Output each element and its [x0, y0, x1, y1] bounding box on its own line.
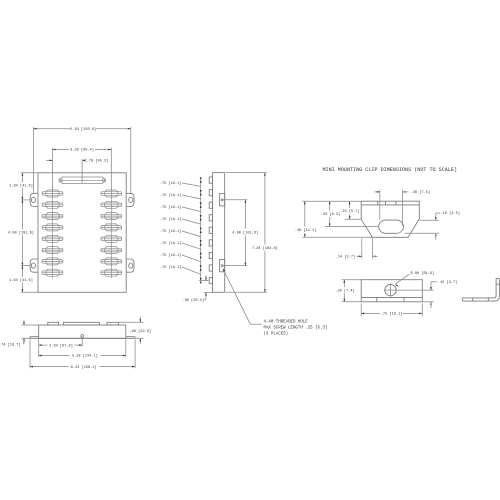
front view: connector slot row 2 right: [101, 199, 122, 210]
bottom view: tab left: [48, 322, 59, 325]
front view: connector slot row 4 left: [42, 222, 63, 233]
svg-text:1.64 [41.6]: 1.64 [41.6]: [9, 278, 33, 283]
bottom view: tab middle wide: [63, 322, 99, 325]
svg-text:.75 [19.1]: .75 [19.1]: [381, 312, 403, 317]
dimension .33 [8.3]: [321, 201, 379, 226]
clip front view: bend line with ticks: [361, 297, 422, 301]
clip top view: bend line with ticks: [361, 201, 419, 205]
front view: connector slot row 8 left: [42, 267, 63, 278]
dimension 7.28 [184.8] side view overall height: [226, 173, 278, 293]
svg-text:2.64 [67.0]: 2.64 [67.0]: [49, 343, 73, 348]
dimension .23 [5.7]: [340, 201, 361, 219]
clip front view: hole circle with centerlines: [384, 283, 397, 297]
svg-text:5.93 [150.6]: 5.93 [150.6]: [70, 127, 96, 132]
svg-text:4.00 [101.6]: 4.00 [101.6]: [8, 230, 34, 235]
bottom view: body outline: [39, 325, 126, 338]
dimension .75 [19.1] label 5 with leader: [160, 229, 201, 236]
svg-text:.75 [19.1]: .75 [19.1]: [160, 205, 182, 210]
dimension .75 [19.1] label 2 with leader: [160, 193, 201, 199]
front view: connector slot row 7 right: [101, 256, 122, 267]
svg-text:.23 [5.7]: .23 [5.7]: [340, 209, 359, 214]
svg-text:6.23 [158.1]: 6.23 [158.1]: [71, 365, 97, 370]
dimension .30 [7.5] clip slot width: [374, 190, 430, 226]
front view: connector slot row 4 right: [101, 222, 122, 233]
svg-text:(6 PLACES): (6 PLACES): [264, 331, 289, 336]
dimension .74 [18.7] body height: [0, 320, 39, 348]
svg-text:.75 [19.1]: .75 [19.1]: [160, 217, 182, 222]
dimension 4.00 [101.6] left: [9, 230, 34, 235]
front view: connector slot row 5 right: [101, 233, 122, 244]
front view: connector slot row 7 left: [42, 256, 63, 267]
dimension .90 [22.9] height with tabs: [119, 317, 151, 344]
front view: connector slot row 6 left: [42, 245, 63, 256]
svg-text:.75 [19.1]: .75 [19.1]: [160, 265, 182, 270]
dimension .14 [3.7]: [336, 239, 378, 260]
svg-text:5.28 [134.1]: 5.28 [134.1]: [72, 354, 98, 359]
dimension .80 [20.4] bottom pitch: [182, 275, 212, 303]
bottom view: tab right: [107, 322, 119, 325]
dimension chain left: extension lines: [21, 173, 38, 292]
side view: connector tab 9: [209, 278, 212, 284]
dimension .75 [19.1] label 1 with leader: [160, 181, 201, 186]
svg-text:.33 [8.3]: .33 [8.3]: [321, 212, 340, 217]
side view: connector tab 7: [209, 252, 212, 258]
front view: D-sub connector slot: [59, 177, 106, 184]
side view: connector tab 4: [209, 215, 212, 221]
svg-text:.75 [19.1]: .75 [19.1]: [160, 241, 182, 246]
svg-text:.29 [7.4]: .29 [7.4]: [335, 288, 354, 293]
svg-text:.75 [19.1]: .75 [19.1]: [160, 253, 182, 258]
clip front view: outline: [361, 280, 422, 302]
svg-text:.90 [22.9]: .90 [22.9]: [130, 329, 152, 334]
front view: mounting clip ear bottom-left with hole: [30, 259, 38, 272]
svg-text:1.78 [45.2]: 1.78 [45.2]: [85, 159, 109, 164]
side view: plate outline: [213, 173, 225, 293]
dimension .75 [19.1] label 7 with leader: [160, 253, 201, 262]
dimension chain .75 pitch line with arrows: [200, 177, 202, 283]
svg-text:.15 [3.7]: .15 [3.7]: [438, 280, 457, 285]
side view: connector tab 5: [209, 227, 212, 233]
bottom view: center hole: [81, 335, 84, 338]
dimension .29 [7.4] clip height: [335, 280, 361, 302]
dimension .48 [12.1]: [295, 201, 374, 237]
front view: plate outline: [38, 173, 126, 292]
side view: connector tab 1: [209, 177, 212, 183]
side view: connector tab 6: [209, 240, 212, 246]
dimension .15 [3.7] hole to edge: [396, 280, 457, 308]
dimension 4.00 [101.6] side view clip hole spacing: [223, 200, 258, 266]
front view: connector slot row 2 left: [42, 199, 63, 210]
svg-text:.74 [18.7]: .74 [18.7]: [0, 342, 21, 347]
svg-text:.75 [19.1]: .75 [19.1]: [160, 181, 182, 186]
svg-text:.80 [20.4]: .80 [20.4]: [182, 298, 204, 303]
svg-text:R.08 [R1.9]: R.08 [R1.9]: [411, 271, 435, 276]
svg-text:.75 [19.1]: .75 [19.1]: [160, 193, 182, 198]
dimension .75 [19.1] label 3 with leader: [160, 205, 201, 211]
side view: connector tab 3: [209, 202, 212, 208]
dimension 1.64 [41.6] bottom left: [10, 277, 33, 282]
dimension .75 [19.1] clip width: [361, 304, 422, 317]
front view: mounting clip ear top-left with hole: [30, 193, 38, 206]
callout leader 4-40 threaded hole: [222, 268, 261, 324]
svg-text:MAX SCREW LENGTH .25 [6.3]: MAX SCREW LENGTH .25 [6.3]: [264, 325, 328, 330]
svg-text:1.64 [41.6]: 1.64 [41.6]: [9, 183, 33, 188]
dimension 1.78 [45.2] slot to centerline: [46, 159, 108, 183]
dimension 2.64 [67.0]: [39, 338, 82, 358]
side view: top mounting clip with threaded hole: [220, 194, 225, 206]
clip top view: outline: [361, 201, 419, 237]
svg-text:.14 [3.7]: .14 [3.7]: [336, 255, 355, 260]
front view: connector slot row 3 right: [101, 211, 122, 222]
svg-text:.30 [7.5]: .30 [7.5]: [411, 190, 430, 195]
front view: mounting clip ear bottom-right with hole: [126, 259, 134, 272]
svg-text:.75 [19.1]: .75 [19.1]: [160, 229, 182, 234]
front view: connector slot row 8 right: [101, 267, 122, 278]
clip side view: L bracket: [462, 278, 499, 301]
svg-text:4-40 THREADED HOLE: 4-40 THREADED HOLE: [264, 320, 309, 324]
svg-text:MINI MOUNTING CLIP DIMENSIONS: MINI MOUNTING CLIP DIMENSIONS (NOT TO SC…: [323, 167, 458, 173]
front view: connector slot row 6 right: [101, 245, 122, 256]
dimension R.08 [R1.9] hole radius leader: [395, 271, 435, 287]
front view: connector slot row 1 right: [101, 188, 122, 199]
side view: bottom mounting clip with threaded hole: [220, 260, 225, 272]
side view: connector tab 8: [209, 265, 212, 271]
dimension 3.56 [90.4] slot column spacing: [53, 148, 112, 191]
dimension .75 [19.1] label 8 with leader: [160, 265, 201, 274]
dimension 5.93 [150.6] top width: [33, 127, 130, 193]
svg-text:.18 [4.5]: .18 [4.5]: [441, 211, 460, 216]
bottom view: clip flanges: [30, 337, 135, 339]
dimension .75 [19.1] label 6 with leader: [160, 241, 201, 249]
svg-text:3.56 [90.4]: 3.56 [90.4]: [70, 148, 94, 153]
svg-text:.48 [12.1]: .48 [12.1]: [295, 228, 317, 233]
dimension .75 [19.1] label 4 with leader: [160, 217, 201, 224]
clip top view: slot: [379, 220, 404, 233]
dimension 5.28 [134.1]: [39, 340, 126, 359]
svg-text:7.28 [184.8]: 7.28 [184.8]: [252, 246, 278, 251]
dimension .18 [4.5] clip slot depth: [405, 211, 460, 240]
dimension 6.23 [158.1]: [30, 340, 135, 370]
front view: connector slot row 3 left: [42, 211, 63, 222]
svg-text:4.00 [101.6]: 4.00 [101.6]: [232, 230, 258, 235]
side view: connector tab 2: [209, 190, 212, 196]
front view: connector slot row 5 left: [42, 233, 63, 244]
dimension 1.64 [41.6] top left: [10, 183, 33, 188]
front view: connector slot row 1 left: [42, 188, 63, 199]
front view: mounting clip ear top-right with hole: [126, 193, 134, 206]
